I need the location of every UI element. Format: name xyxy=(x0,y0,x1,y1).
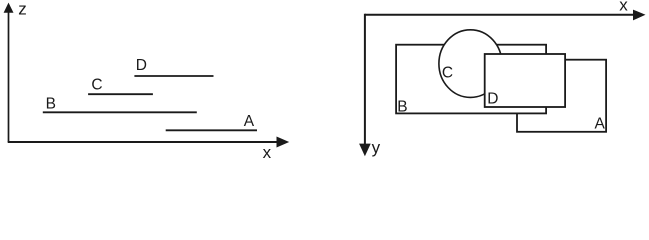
rectangle A (back-most) xyxy=(517,60,606,132)
svg-text:B: B xyxy=(397,99,407,116)
svg-text:x: x xyxy=(619,0,628,15)
depth segment D xyxy=(134,75,213,77)
rectangle D (front-most) xyxy=(485,54,565,107)
depth segment C xyxy=(88,93,153,95)
svg-text:y: y xyxy=(372,138,381,157)
x-axis (left diagram) xyxy=(8,137,290,148)
depth segment B xyxy=(43,111,197,113)
rectangle B xyxy=(396,45,546,114)
circle C xyxy=(439,30,502,98)
svg-text:D: D xyxy=(487,91,498,108)
depth segment A xyxy=(166,129,257,131)
svg-text:A: A xyxy=(244,113,255,130)
z-axis (left diagram) xyxy=(4,3,14,142)
svg-text:C: C xyxy=(442,64,453,81)
y-axis (right diagram) xyxy=(359,14,371,157)
x-axis (right diagram) xyxy=(365,10,646,21)
svg-text:C: C xyxy=(91,76,102,93)
svg-text:z: z xyxy=(18,0,27,18)
svg-text:D: D xyxy=(136,57,147,74)
svg-text:A: A xyxy=(595,115,606,132)
svg-text:B: B xyxy=(46,95,56,112)
svg-text:x: x xyxy=(263,143,272,162)
